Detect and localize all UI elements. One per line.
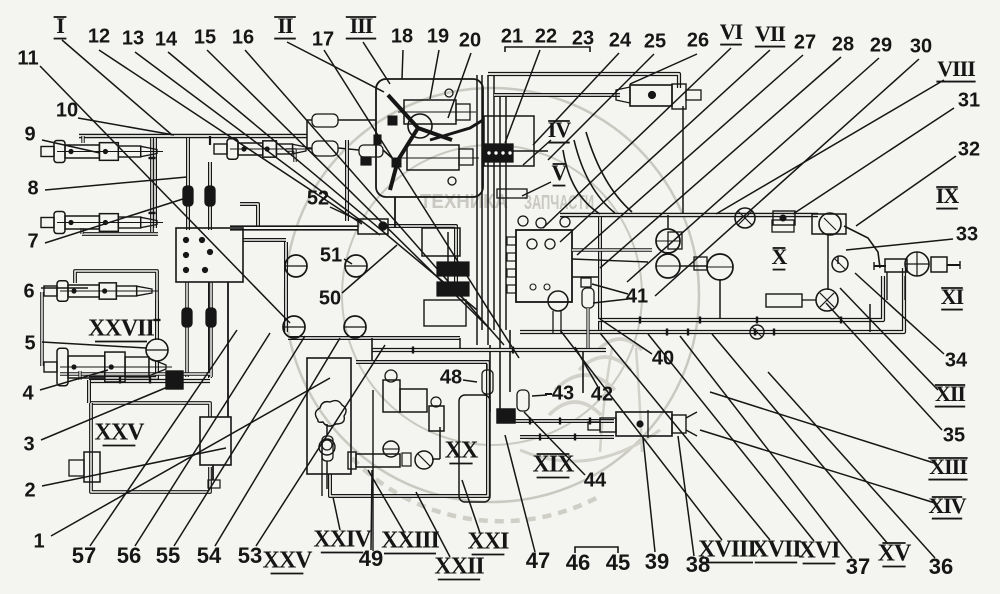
- svg-text:XXV: XXV: [263, 548, 314, 574]
- valve assembly 35: [766, 289, 838, 311]
- pipe 49 riser: [372, 390, 374, 551]
- label roman XXIII (410,542): [381, 528, 439, 554]
- receiver tank a: [656, 229, 680, 253]
- svg-text:30: 30: [910, 35, 932, 57]
- label 8: [27, 177, 38, 199]
- unloader elbow: [432, 427, 440, 459]
- label 49: [359, 546, 383, 571]
- label roman XXIV (342,541): [313, 527, 372, 553]
- pipe x490 tall duct: [459, 395, 490, 502]
- pipe chamber10 drop: [209, 136, 211, 145]
- leader 18: [402, 50, 403, 79]
- label 23: [572, 27, 594, 49]
- moisture trap 43: [517, 390, 529, 411]
- svg-text:XIX: XIX: [532, 452, 575, 478]
- svg-text:26: 26: [687, 29, 709, 51]
- pipe x583 drop: [582, 352, 584, 393]
- label roman XI (952,299): [941, 284, 964, 310]
- leader 38: [678, 436, 694, 556]
- pipe tick fittings: [120, 158, 841, 441]
- svg-text:41: 41: [626, 285, 648, 307]
- svg-text:17: 17: [312, 28, 334, 50]
- pipe capsule feeds: [338, 120, 392, 158]
- pipe under valve: [553, 311, 561, 333]
- pipe cluster down a: [489, 345, 491, 412]
- pipe x372 drop: [371, 338, 373, 360]
- pipe block down x211b: [209, 282, 213, 377]
- svg-text:10: 10: [56, 99, 78, 121]
- pipe run y437: [520, 435, 614, 439]
- label 51: [320, 244, 342, 266]
- label 6: [23, 280, 34, 302]
- label 11: [17, 47, 38, 69]
- label 52: [307, 187, 329, 209]
- label 34: [945, 349, 968, 371]
- pipe elbow: [503, 410, 507, 421]
- leader 7: [45, 198, 186, 243]
- label 40: [652, 347, 674, 369]
- pipe vertical x155: [153, 138, 157, 228]
- condenser cylinder b: [429, 397, 444, 431]
- pipe IX to vertical: [844, 226, 880, 268]
- label 18: [391, 25, 413, 47]
- svg-text:25: 25: [644, 30, 666, 52]
- reservoir 2 block: [200, 417, 231, 488]
- pipe circle-loop bottom: [288, 336, 460, 340]
- label 39: [645, 549, 669, 574]
- svg-text:32: 32: [958, 138, 980, 160]
- svg-text:XXI: XXI: [467, 529, 509, 555]
- leader 26: [630, 54, 697, 84]
- leader XVII: [600, 333, 770, 540]
- svg-text:42: 42: [591, 383, 613, 405]
- unloader assembly: [348, 451, 433, 469]
- leader 21-23: [505, 50, 540, 143]
- svg-text:44: 44: [584, 469, 607, 491]
- brake cylinder 51b: [345, 255, 367, 277]
- leader 50: [342, 245, 397, 293]
- label 45: [606, 550, 630, 575]
- svg-text:48: 48: [440, 366, 462, 388]
- leader 49: [371, 470, 372, 550]
- label 30: [910, 35, 932, 57]
- svg-text:4: 4: [22, 382, 34, 404]
- label roman XVI (819,552): [798, 538, 840, 564]
- air filter capsule c: [359, 135, 383, 165]
- pipe circle-loop left: [284, 242, 288, 332]
- label roman IV (559,132): [548, 117, 572, 143]
- svg-text:13: 13: [122, 27, 144, 49]
- leader III: [363, 42, 390, 84]
- junction block cluster: [497, 189, 527, 198]
- leader 55: [174, 336, 305, 546]
- label roman X (779,259): [772, 244, 788, 270]
- brake chamber 10: [214, 139, 312, 159]
- pipe far-left vertical: [40, 292, 44, 366]
- label roman XV (894,555): [878, 541, 912, 567]
- label 26: [687, 29, 709, 51]
- pipe cluster down c: [509, 330, 511, 392]
- leader 27: [577, 55, 803, 255]
- label 41: [626, 285, 648, 307]
- brake cylinder 50a: [283, 316, 305, 338]
- pipe top-left header risers: [307, 120, 312, 148]
- label roman XIV (947,508): [928, 493, 966, 519]
- svg-text:11: 11: [17, 47, 38, 69]
- leader 19: [430, 50, 439, 99]
- pipe lower-left header b: [60, 372, 210, 375]
- leader XXI: [462, 480, 480, 533]
- leader V: [522, 182, 551, 196]
- bracket 21-23: [505, 47, 590, 52]
- filter 41b: [582, 288, 594, 308]
- leader 48: [463, 380, 477, 382]
- label roman XXV (287,562): [263, 548, 314, 574]
- cartridge capsule: [322, 424, 333, 489]
- svg-text:40: 40: [652, 347, 674, 369]
- pipe block right b: [572, 259, 648, 262]
- svg-text:ТЕХНИКА: ТЕХНИКА: [420, 191, 508, 213]
- fitting x211 low: [206, 308, 216, 327]
- leader 36: [768, 372, 935, 558]
- label 42: [591, 383, 613, 405]
- pipe central vertical cluster: [477, 75, 506, 345]
- label 9: [24, 123, 35, 145]
- svg-text:XXIV: XXIV: [313, 527, 372, 553]
- pipe run y215: [560, 213, 818, 217]
- compressor inlet capsule b: [312, 141, 338, 156]
- label 7: [27, 230, 38, 252]
- label 44: [584, 469, 607, 491]
- svg-text:21: 21: [501, 25, 523, 47]
- label roman III (361,28): [346, 13, 376, 39]
- leader XXIII: [368, 470, 404, 532]
- label 31: [958, 89, 980, 111]
- label 29: [870, 34, 892, 56]
- small part y292: [772, 220, 794, 232]
- leader 53: [256, 345, 385, 546]
- leader XI-b: [840, 288, 938, 390]
- leader 1: [51, 378, 330, 536]
- pipe vertical x188: [186, 138, 190, 230]
- label roman XXI (488,543): [467, 529, 509, 555]
- leader 39: [643, 438, 655, 552]
- label roman VI (731,34): [720, 19, 743, 45]
- leader I: [62, 40, 172, 135]
- leader 16: [245, 50, 504, 345]
- svg-text:28: 28: [832, 33, 854, 55]
- svg-text:52: 52: [307, 187, 329, 209]
- leader 29: [627, 58, 879, 282]
- pipe lower-left header: [89, 379, 210, 383]
- leader VII: [560, 50, 770, 242]
- label 37: [846, 554, 870, 579]
- svg-text:15: 15: [194, 26, 216, 48]
- svg-text:2: 2: [24, 479, 35, 501]
- pipe block right c: [572, 276, 598, 278]
- svg-text:XXIII: XXIII: [381, 528, 439, 554]
- svg-text:VII: VII: [755, 21, 785, 46]
- label roman IX (947,198): [936, 183, 960, 209]
- pipe chamber10 loop: [286, 150, 295, 162]
- svg-text:ЗАПЧАСТИ: ЗАПЧАСТИ: [524, 192, 594, 214]
- regulator block 8: [176, 228, 243, 282]
- pipe bottom-left reservoir loop: [91, 403, 210, 492]
- svg-text:XX: XX: [445, 438, 479, 464]
- pipe block right a: [572, 248, 652, 252]
- svg-text:5: 5: [24, 332, 35, 354]
- pipe assembly loop: [330, 362, 488, 496]
- svg-text:22: 22: [535, 25, 557, 47]
- leader 5: [42, 342, 146, 348]
- fitting x187 low: [182, 308, 192, 327]
- svg-text:VI: VI: [720, 19, 743, 44]
- svg-text:XVI: XVI: [798, 538, 840, 564]
- label 22: [535, 25, 557, 47]
- label 13: [122, 27, 144, 49]
- svg-text:53: 53: [238, 543, 262, 568]
- pipe right chamber feed: [869, 304, 871, 332]
- leader 35: [826, 303, 942, 430]
- leader 2: [42, 448, 226, 486]
- leader VI: [543, 48, 731, 228]
- label 47: [526, 548, 550, 573]
- svg-text:39: 39: [645, 549, 669, 574]
- svg-text:18: 18: [391, 25, 413, 47]
- pipe valve drop x157: [155, 300, 159, 340]
- receiver tank b: [656, 254, 680, 278]
- label 25: [644, 30, 666, 52]
- label roman XIII (948,469): [928, 454, 967, 480]
- label 54: [197, 543, 222, 568]
- leader XIV: [700, 430, 935, 503]
- leader 32: [856, 156, 956, 226]
- pipe run y350: [372, 348, 606, 352]
- air dryer assembly: [307, 358, 351, 474]
- valve IX: [812, 213, 846, 235]
- pipe run y421: [500, 419, 614, 423]
- leader 30: [655, 59, 919, 296]
- svg-text:9: 9: [24, 123, 35, 145]
- leader 47: [505, 435, 535, 552]
- svg-text:31: 31: [958, 89, 980, 111]
- valve 52: [358, 219, 388, 234]
- svg-text:55: 55: [156, 543, 180, 568]
- label 24: [609, 29, 632, 51]
- svg-text:45: 45: [606, 550, 630, 575]
- label roman V (559,175): [552, 160, 568, 186]
- far right chamber 36: [0, 0, 1, 1]
- pipe manifold right: [512, 150, 548, 152]
- label roman XVIII (727,551): [698, 537, 756, 563]
- pipe elbow feed corner: [240, 204, 258, 226]
- leader 4: [40, 370, 108, 390]
- svg-text:1: 1: [33, 530, 44, 552]
- bracket 46-45: [575, 547, 618, 553]
- label 56: [117, 543, 141, 568]
- svg-text:19: 19: [427, 25, 449, 47]
- label 1: [33, 530, 44, 552]
- label 10: [56, 99, 78, 121]
- leader 8: [45, 177, 187, 190]
- aux dark parts left of block: [422, 228, 469, 326]
- pipe x600 drop: [598, 217, 602, 331]
- svg-text:XV: XV: [878, 541, 912, 567]
- svg-text:57: 57: [72, 543, 96, 568]
- label 21: [501, 25, 523, 47]
- brake chamber 9: [41, 140, 163, 162]
- pipe 52 branch: [447, 232, 449, 295]
- leader 40: [600, 319, 652, 354]
- svg-text:20: 20: [459, 29, 481, 51]
- leader 57: [90, 330, 237, 546]
- elbow valve 44: [497, 409, 515, 423]
- label 16: [232, 26, 254, 48]
- brake cylinder 50b: [344, 316, 366, 338]
- leader 51: [344, 259, 352, 264]
- svg-text:37: 37: [846, 554, 870, 579]
- fitting on x210: [205, 186, 215, 206]
- watermark logo: [285, 88, 699, 521]
- leader 6: [41, 287, 88, 289]
- leader 11: [40, 66, 290, 323]
- solenoid valve 26: [616, 84, 701, 109]
- svg-text:XVII: XVII: [751, 537, 801, 563]
- pipe block down x228: [227, 282, 229, 417]
- pipe filter drop: [586, 308, 589, 348]
- label 5: [24, 332, 35, 354]
- label 2: [24, 479, 35, 501]
- leader XXII: [416, 492, 450, 557]
- leader 34: [855, 273, 944, 354]
- leader 3: [41, 386, 170, 440]
- label 32: [958, 138, 980, 160]
- leader XVI: [648, 334, 814, 541]
- valve 5 circle: [146, 339, 168, 361]
- label 43: [552, 382, 574, 404]
- svg-text:43: 43: [552, 382, 574, 404]
- pipe valveX drop: [828, 234, 838, 290]
- moisture trap 48: [482, 364, 493, 394]
- label 15: [194, 26, 216, 48]
- pipe x322 drop: [321, 440, 323, 496]
- bottom brake cylinder 39: [588, 410, 697, 438]
- label 36: [929, 554, 953, 579]
- pipe loop elbow y338: [459, 338, 461, 350]
- leader 41a: [592, 284, 628, 294]
- svg-text:14: 14: [155, 28, 178, 50]
- leader 42: [575, 347, 598, 387]
- leader VIII: [716, 80, 944, 214]
- small valve 33: [832, 256, 848, 272]
- brake chamber 6: [44, 281, 158, 301]
- label 38: [686, 552, 710, 577]
- fitting between tanks: [694, 257, 707, 270]
- svg-text:XVIII: XVIII: [698, 537, 756, 563]
- pipe 52 riser x347: [345, 140, 349, 221]
- right brake chamber XI: [874, 252, 960, 300]
- leader IV: [523, 140, 551, 165]
- label 53: [238, 543, 262, 568]
- svg-text:XXII: XXII: [434, 554, 484, 580]
- label roman XII (950,396): [935, 381, 966, 407]
- label 3: [23, 433, 34, 455]
- label roman XVII (776,551): [751, 537, 801, 563]
- pipe tankc riser: [719, 280, 721, 318]
- label roman VIII (956,71): [936, 56, 975, 82]
- label roman I (60,28): [54, 13, 67, 39]
- brake chamber 4: [44, 348, 172, 385]
- receiver tank c: [707, 254, 733, 280]
- leader 25: [548, 54, 654, 160]
- leader 43: [532, 395, 547, 396]
- leader 52: [330, 207, 362, 222]
- compressor foot circle: [383, 441, 399, 457]
- brake cylinder 51a: [285, 255, 307, 277]
- pipe block to loop: [243, 238, 286, 242]
- loop left block: [69, 452, 100, 482]
- leader 33: [846, 239, 953, 250]
- label 48: [440, 366, 462, 388]
- valve cross y215: [735, 208, 755, 228]
- leader XXIV: [333, 497, 340, 530]
- leader 12: [99, 50, 362, 224]
- svg-text:XXVII: XXVII: [88, 316, 154, 342]
- leader 31: [793, 108, 954, 214]
- pipe cluster down b: [499, 345, 501, 410]
- pipe run y320: [598, 276, 883, 320]
- label 46: [566, 550, 590, 575]
- pipe chamber6 top loop: [75, 271, 157, 300]
- dash 43: [545, 393, 552, 395]
- leader 20: [448, 53, 471, 118]
- pipe chamber4 riser: [78, 371, 81, 380]
- leader 28: [600, 57, 841, 268]
- leader 13: [135, 52, 380, 235]
- leader 24: [533, 53, 619, 145]
- label 50: [319, 287, 341, 309]
- svg-text:7: 7: [27, 230, 38, 252]
- svg-text:51: 51: [320, 244, 342, 266]
- svg-text:12: 12: [88, 25, 110, 47]
- pipe chamber7 return: [82, 228, 158, 234]
- tank a side block: [668, 232, 682, 249]
- leader XVIII: [560, 330, 722, 540]
- svg-text:XXV: XXV: [95, 420, 146, 446]
- leader 9: [42, 140, 100, 153]
- leader 15: [207, 50, 491, 330]
- svg-text:47: 47: [526, 548, 550, 573]
- label roman VII (770,36): [755, 21, 786, 47]
- svg-text:VIII: VIII: [937, 56, 975, 81]
- pipe compressor drop: [394, 197, 396, 228]
- fitting y215: [773, 211, 795, 225]
- pipe 52 to manifold: [388, 226, 456, 292]
- svg-text:29: 29: [870, 34, 892, 56]
- svg-text:33: 33: [956, 223, 978, 245]
- label roman II (285,28): [274, 13, 296, 39]
- manifold block: [483, 116, 534, 166]
- label roman XXV (119,434): [95, 420, 146, 446]
- leader XV: [712, 334, 888, 544]
- leader 54: [215, 338, 340, 546]
- label 4: [22, 382, 34, 404]
- svg-text:50: 50: [319, 287, 341, 309]
- label 33: [956, 223, 978, 245]
- label 55: [156, 543, 180, 568]
- pipe chamber9 riser: [81, 136, 84, 143]
- pipe run y332: [520, 268, 904, 332]
